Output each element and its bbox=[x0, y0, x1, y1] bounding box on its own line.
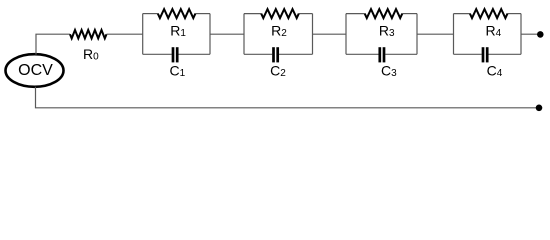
svg-text:R4: R4 bbox=[485, 22, 501, 39]
capacitor C2 bbox=[270, 47, 286, 79]
capacitor C1 bbox=[169, 47, 185, 79]
RC2 parallel branch frame bbox=[244, 14, 313, 55]
svg-text:R0: R0 bbox=[83, 46, 99, 63]
wire RC4 to positive terminal bbox=[521, 33, 538, 35]
svg-text:R3: R3 bbox=[379, 22, 395, 39]
resistor R1 bbox=[158, 9, 196, 39]
wire RC3 to RC4 bbox=[417, 33, 454, 35]
resistor R3 bbox=[365, 9, 403, 39]
resistor R0 bbox=[70, 30, 107, 63]
svg-text:C2: C2 bbox=[270, 62, 286, 79]
resistor R2 bbox=[261, 9, 299, 39]
wire OCV top to main rail bbox=[36, 34, 70, 54]
voltage source OCV bbox=[6, 54, 64, 87]
svg-text:R1: R1 bbox=[170, 22, 186, 39]
capacitor C4 bbox=[483, 47, 503, 79]
wire R0 to RC1 bbox=[107, 33, 143, 35]
svg-text:C1: C1 bbox=[169, 62, 185, 79]
wire OCV bottom return rail bbox=[36, 87, 537, 108]
wire RC2 to RC3 bbox=[313, 33, 347, 35]
RC1 parallel branch frame bbox=[143, 14, 210, 55]
RC3 parallel branch frame bbox=[346, 14, 417, 55]
capacitor C3 bbox=[380, 47, 397, 79]
svg-text:R2: R2 bbox=[271, 22, 287, 39]
wire RC1 to RC2 bbox=[210, 33, 244, 35]
resistor R4 bbox=[470, 9, 508, 39]
svg-text:C3: C3 bbox=[381, 62, 397, 79]
svg-text:OCV: OCV bbox=[18, 62, 53, 79]
RC4 parallel branch frame bbox=[454, 14, 522, 55]
positive terminal node bbox=[537, 31, 544, 38]
negative terminal node bbox=[536, 105, 543, 112]
svg-text:C4: C4 bbox=[487, 62, 503, 79]
